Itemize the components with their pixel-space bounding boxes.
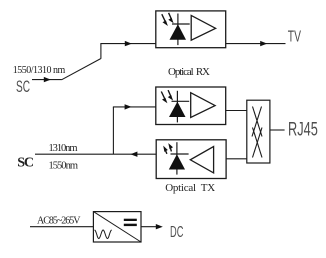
wire crossover to RJ45 xyxy=(270,129,285,131)
box U1 Optical RX (top) xyxy=(156,11,226,48)
amplifier A2 xyxy=(191,93,215,118)
svg-text:SC: SC xyxy=(16,77,30,96)
photodiode D2 xyxy=(161,90,189,122)
wire SC input arrow segment xyxy=(32,79,62,81)
svg-text:Optical TX: Optical TX xyxy=(165,182,215,194)
wire AC input xyxy=(30,226,93,228)
svg-text:1550/1310 nm: 1550/1310 nm xyxy=(13,65,66,76)
wire DC output xyxy=(141,226,158,228)
svg-text:SC: SC xyxy=(17,155,34,170)
wire into RX1 xyxy=(100,43,155,45)
crossover lower X wire 2 xyxy=(253,128,263,158)
svg-text:TV: TV xyxy=(288,28,301,45)
LED D3 xyxy=(163,142,188,174)
box U3 Optical TX xyxy=(156,140,226,179)
PS1 diagonal xyxy=(93,212,141,242)
amplifier A1 xyxy=(191,15,215,40)
svg-text:1310nm: 1310nm xyxy=(49,143,78,154)
svg-text:AC85~265V: AC85~265V xyxy=(37,215,81,226)
svg-text:RJ45: RJ45 xyxy=(288,120,318,141)
PS1 AC sine xyxy=(95,230,112,239)
wire branch vertical xyxy=(112,107,114,154)
wire TX to crossover xyxy=(226,158,247,160)
crossover lower X wire 1 xyxy=(253,128,263,158)
box PS1 power supply xyxy=(93,212,141,242)
box X1 crossover xyxy=(247,100,270,163)
wire fiber diagonal xyxy=(62,59,101,80)
PS1 DC symbol xyxy=(124,219,137,221)
wire RX1 to TV xyxy=(226,43,286,45)
crossover upper X wire 1 xyxy=(253,107,263,137)
photodiode D1 xyxy=(162,13,190,45)
svg-text:1550nm: 1550nm xyxy=(49,161,79,172)
svg-text:Optical RX: Optical RX xyxy=(168,66,210,78)
crossover upper X wire 2 xyxy=(252,107,262,137)
wire into RX2 xyxy=(113,106,156,108)
wire RX2 to crossover xyxy=(226,110,247,112)
box U2 Optical RX (middle) xyxy=(156,87,226,125)
wire TX out to SC xyxy=(35,153,156,155)
svg-text:DC: DC xyxy=(170,224,183,241)
wire vertical riser xyxy=(100,44,102,59)
amplifier A3 (left pointing) xyxy=(190,147,213,173)
